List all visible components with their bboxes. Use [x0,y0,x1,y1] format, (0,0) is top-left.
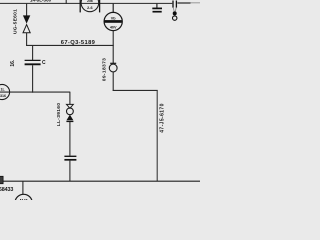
terminal circle [173,16,177,20]
connector J1 right bar [99,0,101,12]
capacitor C4 left plate [172,1,174,8]
wire fuse to jack [112,31,114,63]
wire bottom rail [0,180,200,182]
lamp V1 bar [66,121,73,123]
diode D1 UG-5E601 filled arrow [23,15,30,23]
fuse F1 band [105,20,122,23]
wire fuse branch stem [112,3,114,12]
wire capacitor C1 bottom stub [32,65,34,93]
svg-text:14-8L-560: 14-8L-560 [30,0,52,3]
meter M1 circle at left edge [0,84,10,99]
svg-text:47-J5-6170: 47-J5-6170 [159,103,165,133]
wire capacitor C1 top stub [32,45,34,60]
connector J1 circle at top edge [81,0,99,12]
fuse F1 circle [104,12,122,30]
svg-text:C: C [42,60,46,66]
svg-text:40V: 40V [110,26,117,30]
jack X1 circle [109,64,117,72]
svg-text:316: 316 [0,94,6,98]
lamp V1 LL-39160 top open arrow [67,104,74,108]
svg-text:M.M: M.M [20,198,28,201]
wire bottom circle stem [22,181,24,194]
wire top rail right of C4 [177,2,190,4]
svg-text:LL-39160: LL-39160 [56,103,62,127]
wire C4 left leg [173,8,174,12]
terminal block at left edge [0,176,3,183]
svg-text:2-6: 2-6 [87,6,93,10]
capacitor C1 bottom plate [25,63,41,65]
svg-text:09-18373: 09-18373 [101,58,107,81]
motor M2 circle at bottom edge [15,194,32,211]
junction dot [173,11,177,15]
wire diode branch bottom [26,33,28,46]
wire diode branch top [26,3,28,15]
lamp V1 circle [67,108,74,115]
svg-text:68433: 68433 [0,187,13,193]
wire C4 right leg [175,8,176,12]
capacitor C3 stub [156,3,158,7]
svg-text:UG-5E601: UG-5E601 [12,9,18,34]
svg-text:256: 256 [87,0,93,3]
svg-text:Vb: Vb [111,17,117,21]
svg-text:67-Q3-5189: 67-Q3-5189 [61,40,96,46]
wire top rail far right faded [191,2,201,4]
wire L vertical [156,90,158,181]
wire net 3 horizontal from M1 [0,91,70,93]
svg-text:16.: 16. [10,59,16,67]
capacitor C2 top plate [64,155,76,157]
capacitor C3 top plate [152,7,162,9]
wire L horizontal [113,89,158,91]
diode D1 open arrow [23,25,30,33]
wire LL branch bottom [69,161,71,182]
lamp V1 bottom filled arrow [66,115,73,121]
wire jack down [112,72,114,91]
capacitor C4 right plate [175,1,177,8]
capacitor C1 top plate [25,59,41,61]
connector J1 left bar [79,0,81,12]
capacitor C2 bottom plate [64,159,76,161]
wire LL branch top [69,92,71,105]
wire horizontal net 2 [26,44,114,46]
capacitor C3 bottom plate [153,11,162,13]
wire LL branch middle [69,122,71,156]
wire top rail left segment [0,2,172,4]
wire stub node A at x=66 [65,0,67,4]
jack X1 top bar [110,62,116,64]
